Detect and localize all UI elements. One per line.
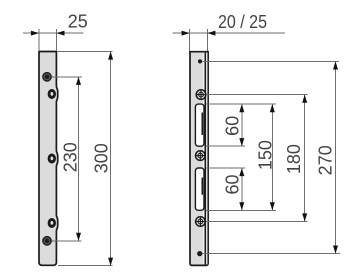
- extension line plate top: [57, 51, 113, 53]
- extension line cutout2 top: [206, 167, 245, 169]
- dimension line 180: [302, 95, 307, 222]
- plate lip strip: [203, 53, 207, 265]
- screw hole bottom left view: [42, 236, 52, 246]
- extension line screw top: [206, 94, 308, 96]
- extension line cutout1 top: [206, 103, 276, 105]
- screw middle front view: [196, 151, 206, 161]
- svg-text:60: 60: [223, 174, 243, 194]
- latch bump middle: [48, 154, 56, 164]
- extension line cutout2 bottom: [206, 209, 276, 211]
- svg-text:300: 300: [92, 143, 112, 173]
- extension line top hole: [52, 76, 82, 78]
- svg-text:60: 60: [223, 116, 243, 136]
- extension line cutout1 bottom: [206, 145, 245, 147]
- svg-text:150: 150: [255, 140, 275, 170]
- extension line front width left: [189, 29, 191, 51]
- extension line bottom hole: [52, 240, 81, 242]
- latch bump top: [48, 89, 56, 99]
- latch cutout upper: [195, 104, 204, 146]
- extension line bottom hole right: [203, 253, 340, 255]
- extension line screw bottom: [206, 221, 308, 223]
- svg-text:25: 25: [68, 12, 88, 32]
- latch bump bottom: [48, 218, 56, 228]
- dimension line 60 lower: [239, 168, 244, 210]
- latch cutout lower: [195, 168, 204, 210]
- strike plate side view body: [39, 52, 58, 266]
- screw hole top left view: [42, 72, 52, 82]
- svg-text:20 / 25: 20 / 25: [218, 12, 267, 32]
- screw bottom front view: [196, 217, 206, 227]
- fold line: [204, 53, 206, 265]
- bottom hole: [197, 251, 202, 256]
- dimension line 230: [76, 77, 81, 241]
- dimension line 25: [23, 31, 83, 36]
- top hole: [198, 59, 202, 63]
- svg-text:230: 230: [60, 142, 80, 172]
- extension line plate bottom: [58, 265, 113, 267]
- screw top front view: [196, 90, 206, 100]
- strike plate front view body: [190, 52, 208, 266]
- dimension line 300: [108, 52, 113, 266]
- extension line top hole right: [203, 60, 339, 62]
- svg-text:270: 270: [316, 145, 336, 175]
- dimension line 270: [333, 61, 338, 253]
- dimension line 20 / 25: [173, 31, 285, 36]
- svg-text:180: 180: [284, 144, 304, 174]
- dimension line 60 upper: [239, 104, 244, 146]
- dimension line 150: [270, 104, 275, 210]
- extension line width left: [38, 29, 40, 51]
- extension line width right: [55, 29, 57, 51]
- extension line front width right: [206, 29, 208, 51]
